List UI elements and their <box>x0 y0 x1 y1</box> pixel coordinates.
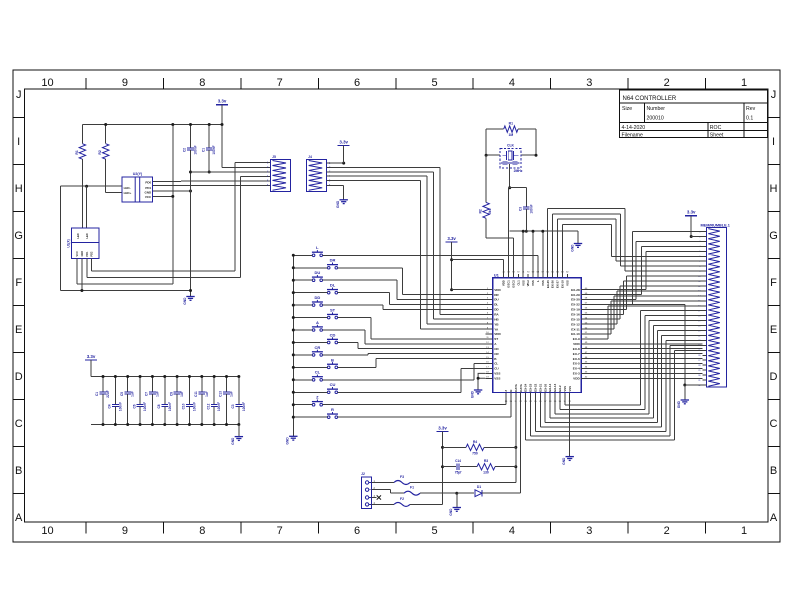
svg-text:C9: C9 <box>169 392 173 396</box>
svg-text:6: 6 <box>354 525 360 537</box>
svg-text:Z: Z <box>504 390 508 392</box>
svg-text:3.3v: 3.3v <box>339 139 348 144</box>
svg-text:100nF: 100nF <box>212 145 216 154</box>
svg-text:VDD: VDD <box>494 288 501 292</box>
svg-text:B: B <box>770 465 777 477</box>
svg-text:1uF: 1uF <box>180 391 184 397</box>
svg-text:DL: DL <box>330 283 336 288</box>
svg-text:PD2: PD2 <box>91 251 94 256</box>
svg-text:3.3v: 3.3v <box>218 99 227 104</box>
svg-text:EX-18: EX-18 <box>561 280 565 288</box>
svg-text:1M: 1M <box>508 133 513 137</box>
svg-text:EX-14: EX-14 <box>548 383 552 391</box>
svg-text:1uF: 1uF <box>205 391 209 397</box>
svg-text:A: A <box>316 320 319 325</box>
svg-text:C2: C2 <box>183 148 187 152</box>
svg-text:100nF: 100nF <box>217 402 221 411</box>
svg-text:EX-10: EX-10 <box>571 332 580 336</box>
svg-text:F1: F1 <box>410 486 414 490</box>
svg-text:VCC: VCC <box>145 195 152 199</box>
svg-text:VSS: VSS <box>565 280 569 286</box>
svg-text:0.1: 0.1 <box>746 116 753 122</box>
svg-text:EX-4: EX-4 <box>573 367 580 371</box>
svg-text:EX-19: EX-19 <box>571 308 580 312</box>
svg-text:LED-: LED- <box>124 186 131 190</box>
svg-text:VSS: VSS <box>521 280 525 286</box>
svg-text:F: F <box>770 277 777 289</box>
svg-text:100nF: 100nF <box>168 402 172 411</box>
svg-text:4: 4 <box>509 525 515 537</box>
svg-text:B: B <box>331 357 334 362</box>
svg-text:RA: RA <box>494 313 499 317</box>
svg-text:GND: GND <box>449 508 453 516</box>
svg-text:R1: R1 <box>75 150 79 154</box>
svg-text:VDD: VDD <box>573 376 580 380</box>
svg-text:F3: F3 <box>400 475 404 479</box>
svg-text:DL: DL <box>494 303 498 307</box>
svg-text:C6: C6 <box>132 404 136 408</box>
svg-text:CR: CR <box>315 345 321 350</box>
svg-text:100nF: 100nF <box>192 402 196 411</box>
svg-text:VDD: VDD <box>494 332 501 336</box>
svg-text:J4: J4 <box>308 155 312 159</box>
svg-text:DD: DD <box>315 295 321 300</box>
svg-text:Rev: Rev <box>746 106 756 112</box>
svg-text:D: D <box>15 371 23 383</box>
svg-text:7: 7 <box>277 525 283 537</box>
svg-text:R: R <box>509 390 513 392</box>
svg-text:R: R <box>331 407 334 412</box>
svg-text:3.3v: 3.3v <box>447 236 456 241</box>
svg-text:EX-15: EX-15 <box>571 317 580 321</box>
svg-text:C14: C14 <box>455 459 461 463</box>
svg-text:G: G <box>769 230 778 242</box>
svg-text:C1: C1 <box>95 392 99 396</box>
svg-text:6: 6 <box>354 77 360 89</box>
svg-text:EX-32: EX-32 <box>571 303 580 307</box>
svg-text:9: 9 <box>122 525 128 537</box>
svg-text:EX-22: EX-22 <box>534 383 538 391</box>
svg-text:H: H <box>15 183 23 195</box>
svg-text:DATA: DATA <box>514 384 518 391</box>
svg-text:I: I <box>17 136 20 148</box>
svg-text:1: 1 <box>741 525 747 537</box>
svg-text:ST: ST <box>330 307 336 312</box>
svg-text:EX-29: EX-29 <box>571 293 580 297</box>
svg-text:MEM/RUMBLE.1: MEM/RUMBLE.1 <box>701 223 730 227</box>
svg-text:1uF: 1uF <box>155 391 159 397</box>
svg-text:3: 3 <box>586 77 592 89</box>
svg-text:200010: 200010 <box>647 116 664 122</box>
svg-text:C5: C5 <box>120 392 124 396</box>
svg-text:D: D <box>770 371 778 383</box>
svg-text:CL: CL <box>315 370 321 375</box>
svg-text:EX-16: EX-16 <box>571 313 580 317</box>
svg-text:R3: R3 <box>484 459 488 463</box>
svg-text:DD: DD <box>494 308 499 312</box>
svg-text:H: H <box>770 183 778 195</box>
svg-text:100nF: 100nF <box>143 402 147 411</box>
svg-text:N64 CONTROLLER: N64 CONTROLLER <box>623 96 677 102</box>
svg-text:CR: CR <box>494 352 499 356</box>
svg-text:EX-7: EX-7 <box>573 352 580 356</box>
svg-text:F2: F2 <box>400 497 404 501</box>
svg-text:5: 5 <box>431 525 437 537</box>
svg-text:DU: DU <box>315 270 321 275</box>
svg-text:C: C <box>15 418 23 430</box>
svg-text:CL1: CL1 <box>516 280 520 286</box>
svg-text:EX-12: EX-12 <box>571 322 580 326</box>
svg-text:C3: C3 <box>519 207 523 211</box>
svg-text:GND: GND <box>231 437 235 445</box>
svg-text:EX-27: EX-27 <box>556 280 560 288</box>
svg-text:CD: CD <box>494 347 499 351</box>
svg-text:F: F <box>15 277 22 289</box>
svg-text:PD1: PD1 <box>86 251 89 256</box>
svg-text:EX-21: EX-21 <box>538 383 542 391</box>
svg-text:R1: R1 <box>509 122 513 126</box>
svg-text:G: G <box>14 230 23 242</box>
svg-text:PD1: PD1 <box>145 186 151 190</box>
svg-text:C8: C8 <box>157 404 161 408</box>
svg-text:U1(X): U1(X) <box>67 239 71 247</box>
svg-text:10: 10 <box>41 525 53 537</box>
svg-text:PD0: PD0 <box>145 180 151 184</box>
svg-text:8: 8 <box>199 525 205 537</box>
svg-text:VSS: VSS <box>568 386 572 392</box>
svg-text:5: 5 <box>431 77 437 89</box>
svg-text:EX-20: EX-20 <box>543 383 547 391</box>
svg-text:HB: HB <box>494 317 499 321</box>
svg-text:R4: R4 <box>473 440 477 444</box>
svg-text:Filename: Filename <box>622 133 643 139</box>
svg-text:DR: DR <box>494 293 499 297</box>
svg-text:8: 8 <box>199 77 205 89</box>
svg-text:DATA: DATA <box>519 384 523 391</box>
svg-text:EX-13: EX-13 <box>553 383 557 391</box>
svg-text:GND: GND <box>286 437 290 445</box>
svg-text:DU: DU <box>494 298 499 302</box>
svg-text:100nF: 100nF <box>118 402 122 411</box>
svg-text:EX-8: EX-8 <box>573 347 580 351</box>
svg-text:EX-11: EX-11 <box>571 327 580 331</box>
svg-text:CU: CU <box>494 367 499 371</box>
svg-text:100nF: 100nF <box>242 402 246 411</box>
svg-text:CLK: CLK <box>507 144 515 148</box>
svg-text:GND: GND <box>570 244 574 252</box>
svg-text:ST: ST <box>494 337 498 341</box>
svg-text:130: 130 <box>483 471 489 475</box>
svg-text:OSC1: OSC1 <box>507 280 511 288</box>
svg-text:EX-26: EX-26 <box>551 280 555 288</box>
svg-text:Sheet: Sheet <box>710 133 724 139</box>
svg-text:10: 10 <box>41 77 53 89</box>
svg-text:EX-30: EX-30 <box>571 298 580 302</box>
svg-text:3.3v: 3.3v <box>87 354 96 359</box>
svg-text:C13: C13 <box>219 391 223 397</box>
svg-text:CL: CL <box>494 362 498 366</box>
svg-text:GND: GND <box>677 400 681 408</box>
svg-text:DR: DR <box>330 258 336 263</box>
svg-text:C11: C11 <box>194 391 198 397</box>
svg-text:VSS: VSS <box>531 280 535 286</box>
svg-text:A: A <box>15 512 23 524</box>
svg-text:L: L <box>536 280 540 282</box>
svg-text:VDD: VDD <box>573 342 580 346</box>
svg-text:2: 2 <box>664 77 670 89</box>
svg-text:C4: C4 <box>108 404 112 408</box>
svg-text:3.3v: 3.3v <box>687 210 696 215</box>
svg-text:LED: LED <box>77 233 80 238</box>
svg-text:5k6: 5k6 <box>488 208 492 214</box>
svg-text:EX-28: EX-28 <box>571 288 580 292</box>
svg-text:VDD: VDD <box>502 280 506 286</box>
svg-text:I: I <box>772 136 775 148</box>
svg-text:E: E <box>770 324 777 336</box>
svg-text:EX-9: EX-9 <box>573 337 580 341</box>
svg-text:D1: D1 <box>477 485 481 489</box>
svg-text:U1: U1 <box>494 272 500 277</box>
svg-text:VSS: VSS <box>541 280 545 286</box>
svg-text:B: B <box>15 465 22 477</box>
svg-text:R2: R2 <box>479 209 483 213</box>
svg-text:EX-25: EX-25 <box>546 280 550 288</box>
svg-text:GND: GND <box>562 457 566 465</box>
svg-text:C7: C7 <box>145 392 149 396</box>
svg-text:Number: Number <box>647 106 666 112</box>
svg-text:GND: GND <box>336 200 340 208</box>
svg-text:J: J <box>16 89 22 101</box>
svg-text:22uF: 22uF <box>106 390 110 397</box>
svg-text:U2(Y): U2(Y) <box>133 172 143 176</box>
svg-text:CD: CD <box>330 332 336 337</box>
svg-text:2MHz: 2MHz <box>514 169 523 173</box>
svg-text:A: A <box>770 512 778 524</box>
svg-text:2: 2 <box>664 525 670 537</box>
svg-text:1uF: 1uF <box>131 391 135 397</box>
svg-text:4: 4 <box>509 77 515 89</box>
svg-text:750: 750 <box>472 451 478 455</box>
svg-text:GND: GND <box>183 297 187 305</box>
svg-text:EX-24: EX-24 <box>524 383 528 391</box>
svg-text:75pf: 75pf <box>455 471 462 475</box>
svg-text:J: J <box>771 89 777 101</box>
svg-text:J5: J5 <box>272 155 276 159</box>
svg-text:R2: R2 <box>98 150 102 154</box>
svg-text:4-14-2020: 4-14-2020 <box>622 125 646 131</box>
svg-text:C12: C12 <box>206 403 210 409</box>
svg-text:YB: YB <box>494 322 499 326</box>
svg-text:C10: C10 <box>182 403 186 409</box>
svg-text:100nF: 100nF <box>194 145 198 154</box>
svg-text:VCC: VCC <box>76 251 79 256</box>
svg-text:9: 9 <box>122 77 128 89</box>
svg-text:100nF: 100nF <box>529 204 533 213</box>
svg-text:EX-5: EX-5 <box>573 362 580 366</box>
svg-text:ROC: ROC <box>710 125 722 131</box>
svg-text:Size: Size <box>622 106 632 112</box>
svg-text:E: E <box>15 324 22 336</box>
svg-text:EX-3: EX-3 <box>573 372 580 376</box>
svg-text:C3: C3 <box>231 404 235 408</box>
svg-text:VSS: VSS <box>494 376 500 380</box>
svg-text:OSC2: OSC2 <box>512 280 516 288</box>
svg-text:GND: GND <box>145 190 153 194</box>
svg-text:VPul: VPul <box>526 280 530 286</box>
svg-text:C: C <box>770 418 778 430</box>
svg-text:C1: C1 <box>201 148 205 152</box>
svg-text:CU: CU <box>330 382 336 387</box>
svg-text:1uF: 1uF <box>230 391 234 397</box>
svg-text:GND: GND <box>471 390 475 398</box>
svg-text:LED+: LED+ <box>124 191 132 195</box>
svg-text:3.3v: 3.3v <box>438 425 447 430</box>
svg-text:VSS: VSS <box>563 386 567 392</box>
svg-text:J2: J2 <box>361 472 365 476</box>
svg-text:1: 1 <box>741 77 747 89</box>
svg-text:3: 3 <box>586 525 592 537</box>
svg-text:EX-2: EX-2 <box>558 385 562 392</box>
svg-text:LED: LED <box>86 233 89 238</box>
svg-text:GND: GND <box>81 251 84 257</box>
svg-text:EX-6: EX-6 <box>573 357 580 361</box>
svg-text:EX-23: EX-23 <box>529 383 533 391</box>
svg-text:7: 7 <box>277 77 283 89</box>
svg-text:VSS: VSS <box>494 372 500 376</box>
